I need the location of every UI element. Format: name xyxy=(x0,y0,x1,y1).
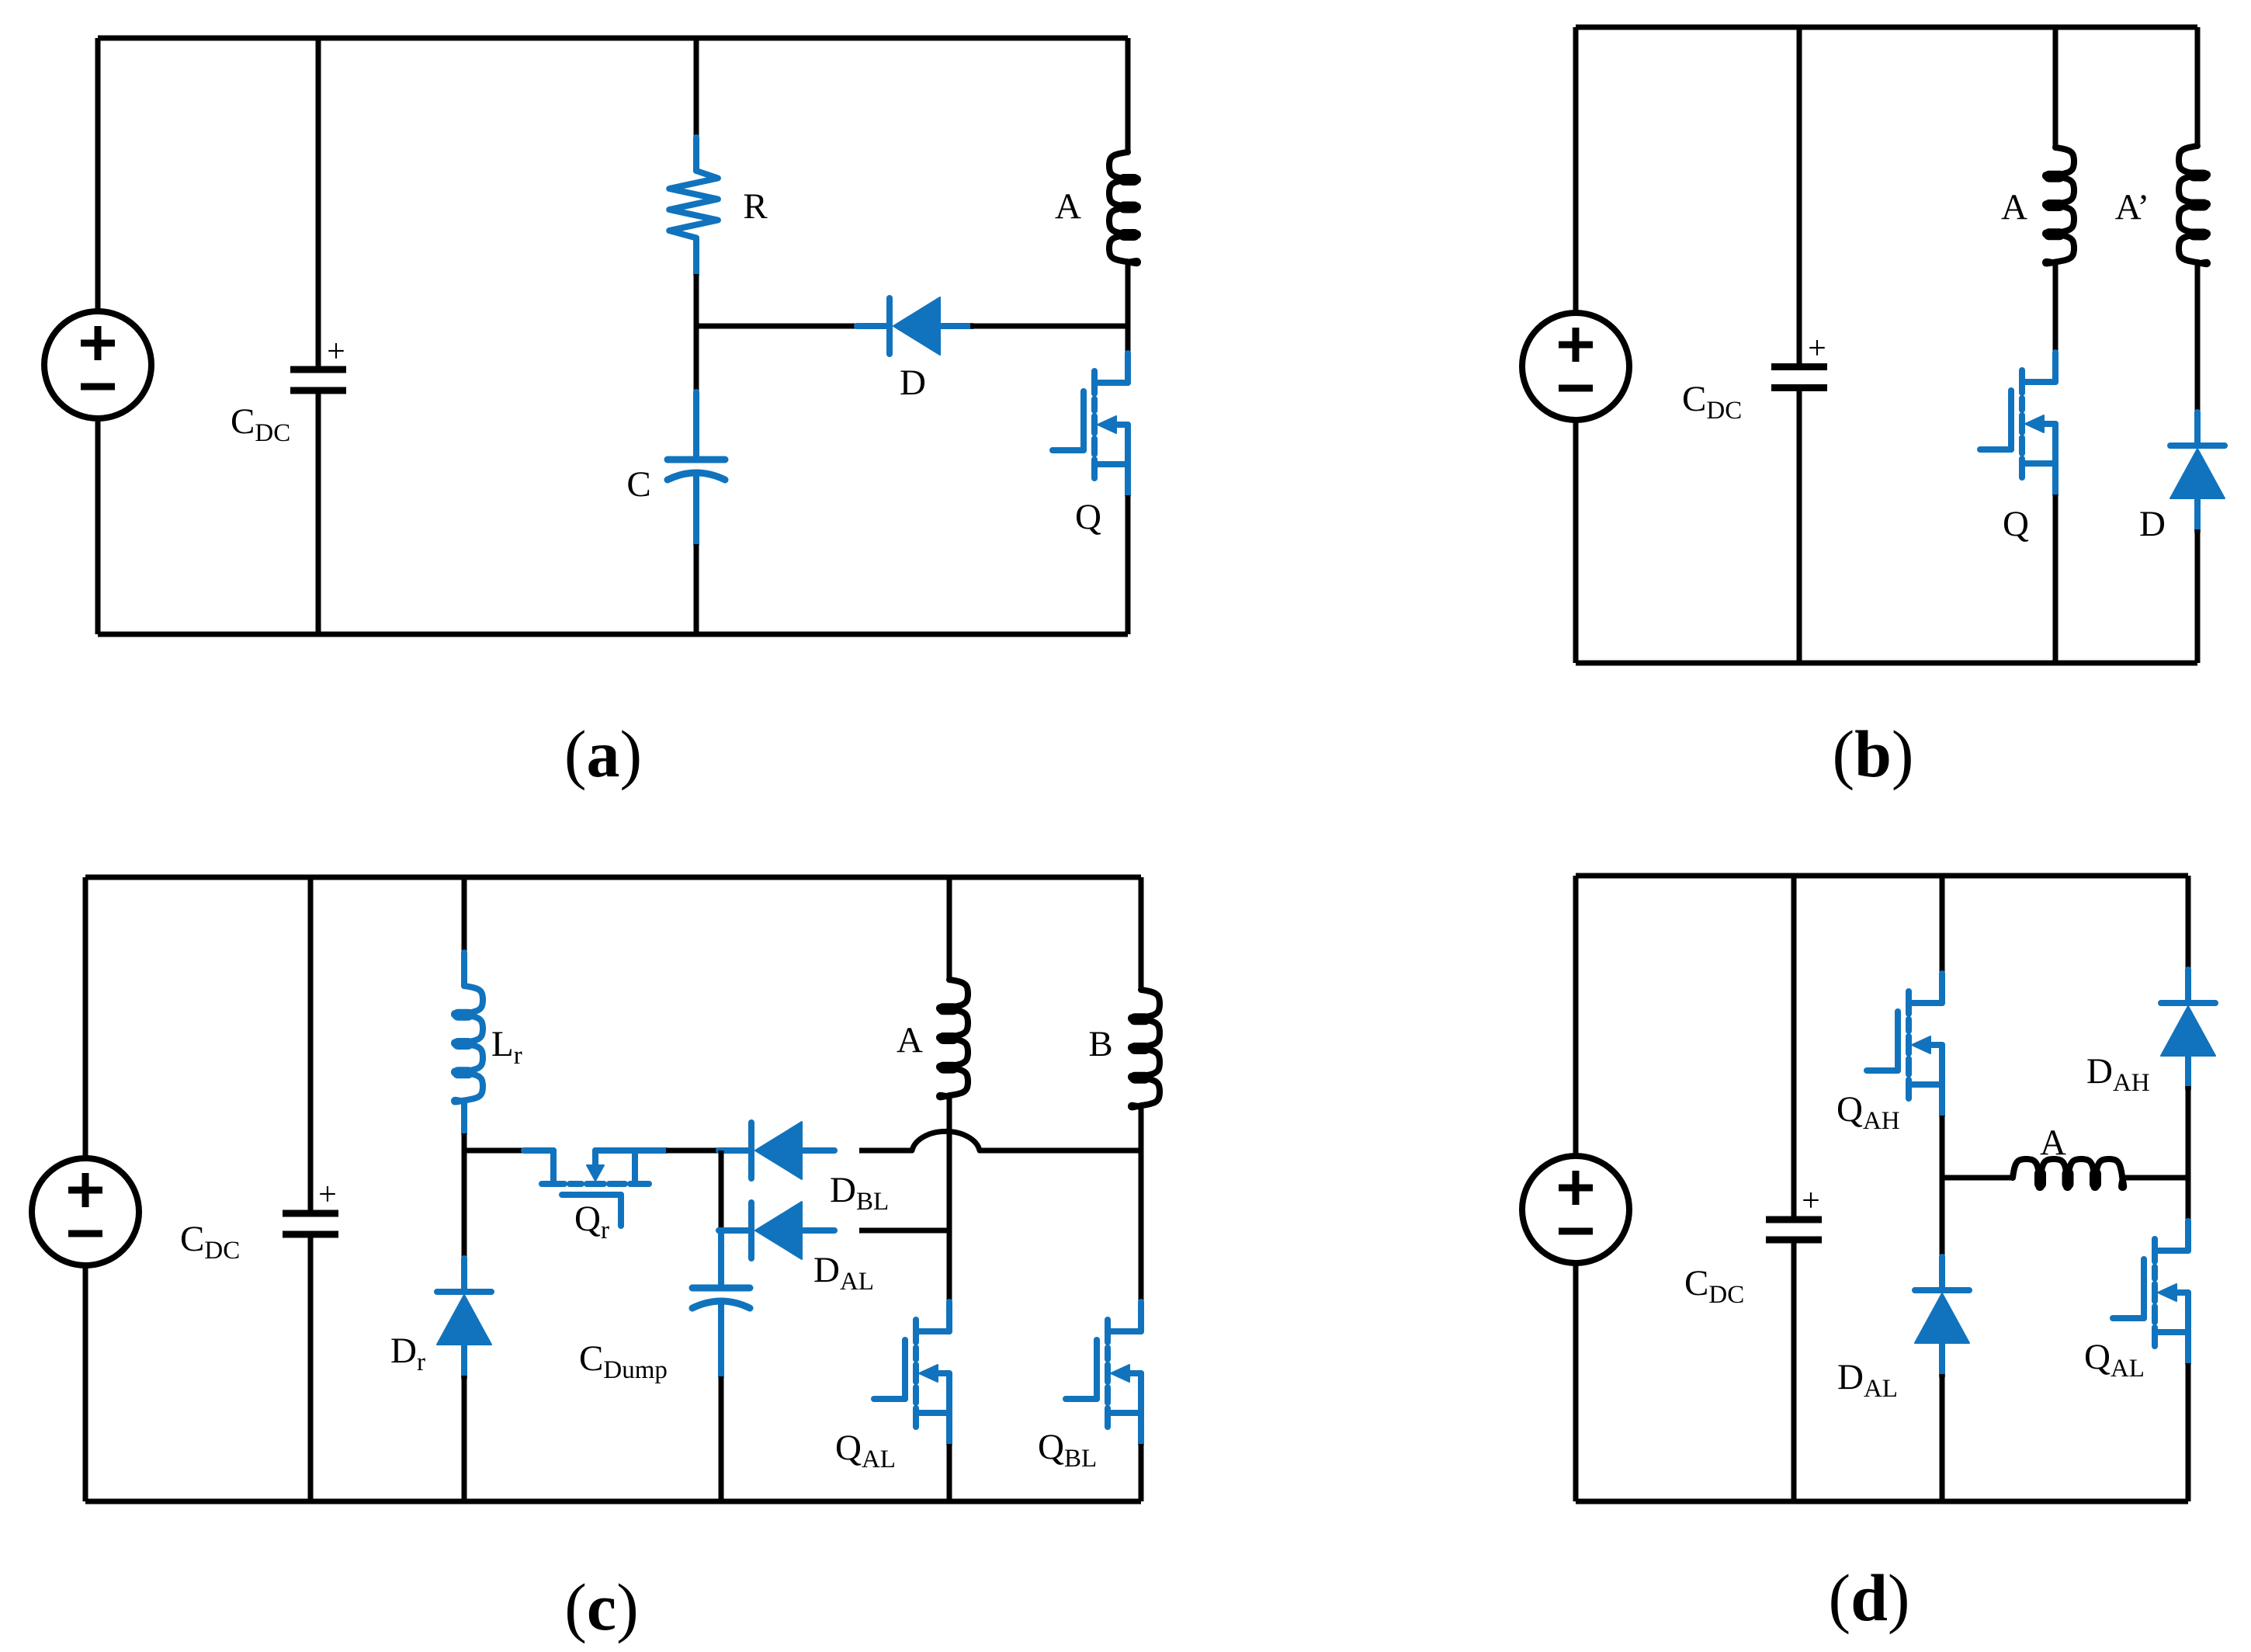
svg-text:D: D xyxy=(900,363,926,403)
svg-text:(b): (b) xyxy=(1832,717,1913,791)
svg-text:(d): (d) xyxy=(1828,1560,1909,1635)
svg-text:D: D xyxy=(2139,504,2166,544)
svg-text:R: R xyxy=(743,186,768,227)
svg-text:+: + xyxy=(327,334,345,370)
svg-text:A: A xyxy=(2001,187,2027,227)
svg-text:+: + xyxy=(318,1177,337,1213)
svg-text:A’: A’ xyxy=(2115,187,2149,227)
svg-text:Q: Q xyxy=(2003,504,2029,544)
svg-text:(c): (c) xyxy=(564,1570,638,1644)
svg-text:A: A xyxy=(2040,1123,2066,1163)
svg-text:Q: Q xyxy=(1075,497,1101,537)
svg-text:A: A xyxy=(897,1020,923,1060)
svg-text:C: C xyxy=(626,464,650,505)
svg-text:(a): (a) xyxy=(564,717,642,791)
svg-text:A: A xyxy=(1055,186,1081,227)
svg-text:B: B xyxy=(1088,1024,1112,1064)
svg-text:+: + xyxy=(1802,1183,1820,1219)
svg-text:+: + xyxy=(1808,331,1826,366)
